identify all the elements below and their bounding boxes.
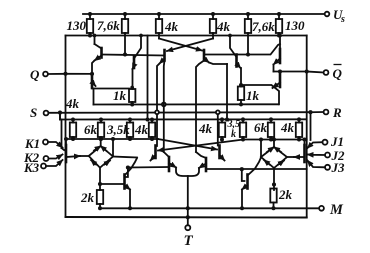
svg-text:7,6k: 7,6k [252,19,275,34]
svg-text:1k: 1k [246,88,260,103]
svg-text:4k: 4k [216,19,231,34]
svg-text:4k: 4k [280,120,295,135]
svg-text:4k: 4k [134,122,149,137]
svg-text:K1: K1 [24,136,40,151]
svg-text:k: k [231,129,236,140]
svg-text:7,6k: 7,6k [97,18,120,33]
svg-text:1k: 1k [113,88,127,103]
svg-text:R: R [332,105,342,120]
svg-text:s: s [340,14,345,25]
svg-text:T: T [184,233,194,249]
svg-text:2k: 2k [278,187,293,202]
svg-text:K3: K3 [23,160,40,175]
svg-text:4k: 4k [198,121,213,136]
svg-text:4k: 4k [65,96,80,111]
svg-text:4k: 4k [164,19,179,34]
svg-text:6k: 6k [84,122,98,137]
svg-text:S: S [30,105,37,120]
svg-text:6k: 6k [254,120,268,135]
svg-text:J3: J3 [331,160,346,175]
svg-text:Q: Q [333,66,343,81]
svg-text:Q: Q [30,67,40,82]
svg-text:2k: 2k [80,190,95,205]
svg-text:130: 130 [67,18,87,33]
svg-text:3,5k: 3,5k [106,122,130,137]
svg-text:J1: J1 [330,134,344,149]
svg-text:130: 130 [285,18,305,33]
svg-text:M: M [329,202,344,218]
